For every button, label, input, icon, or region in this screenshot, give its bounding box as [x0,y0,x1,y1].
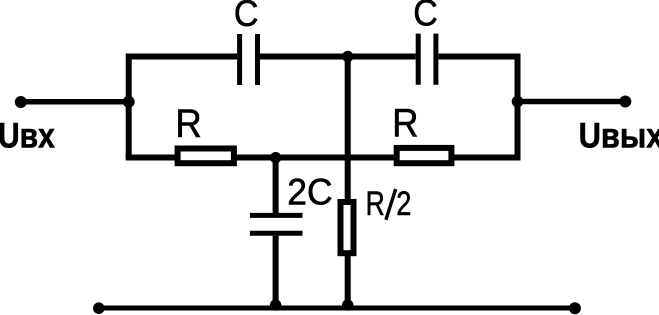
wire top rail right segment + right vertical [438,57,517,158]
node top center junction [342,51,353,62]
wire center vertical [345,57,351,309]
node junction R3 branch bottom [342,299,353,310]
capacitor C3 2C [250,215,303,233]
node input terminal [15,96,27,108]
capacitor C2 [418,34,436,85]
svg-text:Uвых: Uвых [579,116,659,155]
node input junction [123,96,135,108]
svg-text:2: 2 [396,184,411,223]
label R1 value R [175,102,201,147]
wire output lead [518,99,626,105]
node junction 2C branch top [270,152,281,163]
label C1 value C [234,0,259,34]
svg-text:2C: 2C [287,171,332,213]
wire 2C branch upper [273,158,279,214]
label C3 value 2C [287,171,332,213]
wire left vertical + top rail left segment [129,57,237,158]
label R3 value R/2 [366,184,412,223]
capacitor C1 [240,34,258,85]
svg-text:Uвх: Uвх [0,115,55,155]
label output Uвых [579,116,659,155]
node bottom rail right terminal [569,302,581,314]
label C2 value C [413,0,438,34]
wire resistor row [129,155,518,161]
node bottom rail left terminal [93,302,105,314]
resistor R1 [178,149,234,164]
node junction 2C branch bottom [270,299,281,310]
node output junction [512,96,524,108]
svg-text:C: C [234,0,259,34]
label input Uвх [0,115,55,155]
svg-text:R: R [392,101,418,146]
label R2 value R [392,101,418,146]
wire 2C branch lower [273,236,279,308]
resistor R2 [397,148,452,163]
node output terminal [619,96,631,108]
svg-text:R: R [175,102,201,147]
svg-text:C: C [413,0,438,34]
wire bottom rail [99,306,575,311]
wire input lead [21,99,129,105]
resistor R3 R/2 [341,202,354,253]
wire top rail middle segment [260,54,416,60]
svg-text:R: R [366,185,385,223]
